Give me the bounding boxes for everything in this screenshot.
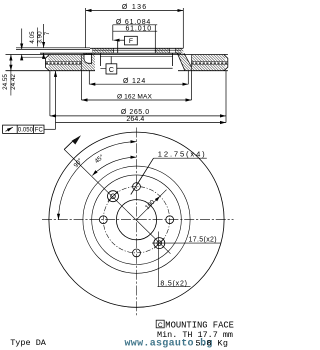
dim Ø265 extension right [225, 71, 227, 123]
hat circle Ø136 [92, 175, 182, 265]
dim Ø61 extension right [154, 25, 156, 48]
pin hole lower-right outer Ø17.5 [154, 238, 165, 249]
bolt hole left [99, 216, 107, 224]
datum F box [125, 36, 138, 45]
dim Ø136 extension left [85, 8, 87, 48]
flange inner step edge [113, 48, 115, 53]
svg-text:Type DA: Type DA [10, 338, 47, 348]
vent gap line upper [46, 61, 228, 63]
hat inner pocket left (white) [84, 54, 92, 63]
svg-text:0.050: 0.050 [18, 128, 34, 134]
svg-text:5.8 Kg: 5.8 Kg [196, 338, 229, 348]
svg-text:61.010: 61.010 [125, 25, 152, 32]
hat wall right outer diagonal edge [184, 53, 192, 67]
hat flange left (hatched) [92, 48, 114, 53]
dim 61.010 lower rule [113, 30, 157, 32]
runout FCF cell divider 1 [16, 125, 18, 133]
svg-text:Ø 265.0: Ø 265.0 [121, 109, 150, 116]
leader 8.5 shelf [158, 286, 191, 288]
hat wall inner edge right [172, 53, 174, 66]
friction ring right outer plate (hatched) [192, 55, 226, 62]
dim Ø124 extension right [187, 71, 189, 85]
dim Ø265 line [50, 115, 226, 117]
svg-text:264.4: 264.4 [126, 116, 144, 123]
svg-text:45°: 45° [93, 152, 106, 165]
dim Ø124 line [89, 83, 188, 85]
disc OD edge left with chamfers [45, 55, 49, 71]
svg-text:FC: FC [35, 128, 44, 134]
ring inner edge left [81, 55, 83, 71]
hat interior visible edge [100, 56, 172, 58]
horizontal centerline [42, 219, 234, 221]
dim Ø162 line [82, 99, 192, 101]
angle arc 90deg [59, 142, 137, 220]
dim Ø136 line [86, 10, 184, 12]
section direction elbow [64, 139, 74, 149]
dim Ø162 extension left [81, 71, 83, 100]
FRONT VIEW [42, 128, 234, 317]
datum C box [106, 64, 117, 74]
dim 264.4 line [56, 122, 227, 124]
DIMENSIONS (section view) [3, 8, 226, 133]
bolt circle radius line continuation [160, 190, 166, 196]
hat flange bottom line [40, 52, 181, 54]
svg-text:24.42: 24.42 [10, 74, 17, 90]
angle arc 45deg [92, 157, 136, 175]
friction ring left inner plate (hatched) [48, 65, 81, 71]
svg-text:8.5(x2): 8.5(x2) [160, 281, 187, 288]
dim Ø61.084 upper rule [113, 24, 157, 26]
flange pin hole edge left [169, 48, 171, 53]
svg-text:Ø 162 MAX: Ø 162 MAX [117, 94, 152, 101]
pin hole upper-left inner Ø8.5 [111, 194, 116, 199]
svg-text:24.55: 24.55 [2, 74, 9, 90]
svg-text:12.75(x4): 12.75(x4) [158, 150, 207, 159]
datum F leader arrow [114, 39, 125, 41]
bore edge right [154, 48, 156, 53]
hat flange right inner part (hatched) [155, 48, 169, 53]
svg-text:Ø 136: Ø 136 [122, 4, 148, 11]
hat interior bottom edge right segment [117, 67, 173, 69]
hat wall right diagonal band (hatched) [177, 53, 191, 70]
dim Ø265 extension left [49, 71, 51, 116]
dim 7 arrow line [43, 24, 45, 48]
svg-text:3.90: 3.90 [37, 31, 44, 44]
bolt hole top [133, 183, 141, 191]
hat flange right outer part (hatched) [176, 48, 184, 53]
dim Ø162 extension right [191, 71, 193, 100]
vent gap line lower [46, 64, 228, 66]
SECTION VIEW [6, 40, 228, 70]
leader 17.5 horizontal [152, 242, 221, 244]
leader 8.5 vertical [158, 232, 160, 287]
vertical centerline [136, 128, 138, 317]
hat wall left (hatched) [82, 53, 96, 70]
outer diameter circle [49, 132, 224, 307]
left extension line (4.05 lower ref) [22, 56, 46, 58]
pad sweep circle Ø162 [83, 166, 190, 273]
svg-text:C: C [109, 65, 114, 74]
svg-text:Ø 124: Ø 124 [123, 78, 146, 85]
dim 24.55 line with arrows [10, 55, 12, 71]
ring bottom face line right [178, 70, 228, 72]
runout FCF cell divider 2 [33, 125, 35, 133]
ring bottom face line left [6, 70, 96, 72]
ring inner edge right [191, 55, 193, 71]
friction ring left outer plate (hatched) [48, 55, 81, 62]
dim 4.05 arrow line [21, 29, 23, 50]
hat wall inner edge left [99, 53, 101, 66]
bolt circle radius line 45deg [137, 196, 161, 220]
friction ring right inner plate (hatched) [192, 65, 226, 71]
hat interior bottom edge left segment [100, 67, 106, 69]
ring top face line [6, 54, 228, 56]
leader 12.75 shelf [154, 157, 207, 159]
left extension line (4.05 ref) [16, 48, 90, 50]
svg-text:MOUNTING FACE: MOUNTING FACE [165, 320, 234, 330]
svg-text:17.5(x2): 17.5(x2) [189, 237, 217, 244]
svg-text:7: 7 [44, 31, 51, 35]
flange pin hole edge right [175, 48, 177, 53]
hat mounting face top line [90, 47, 183, 49]
dim 4.05 counter arrow [21, 54, 23, 59]
runout FCF frame [3, 125, 44, 133]
bolt hole right [166, 216, 174, 224]
disc OD edge right with chamfers [224, 55, 228, 71]
dim Ø124 extension left [88, 71, 90, 85]
svg-text:F: F [129, 38, 133, 45]
bolt hole bottom [133, 249, 141, 257]
datum C leader [110, 56, 112, 64]
svg-text:4.05: 4.05 [29, 31, 36, 44]
dim Ø61 extension left [112, 25, 114, 41]
svg-text:C: C [158, 322, 163, 329]
hat flange chamfer line [92, 49, 181, 51]
dim 7 counter arrow [43, 53, 45, 59]
left extension line (mounting face) [16, 47, 90, 49]
pin hole lower-right inner Ø8.5 [157, 241, 162, 246]
bore edge left [117, 40, 119, 53]
dim Ø136 extension right [182, 8, 184, 48]
runout FCF leader horizontal [44, 128, 56, 130]
svg-text:100: 100 [144, 198, 157, 211]
runout symbol arrow [6, 127, 13, 131]
section direction arrowhead [72, 135, 81, 144]
bolt circle Ø100 (dash-dot) [103, 187, 169, 253]
pin hole upper-left outer Ø17.5 [108, 191, 119, 202]
centre bore circle Ø61 [116, 200, 156, 240]
dim 24.55 line extension below [10, 71, 12, 96]
hat wall right inner diagonal edge [177, 53, 185, 70]
pin hole upper-left cross tick [108, 191, 118, 201]
pin hole lower-right cross tick [154, 238, 164, 248]
leader 12.75 diagonal through top hole [131, 158, 154, 194]
vent gap vane dashes [46, 62, 228, 64]
runout FCF leader vertical with arrow [55, 71, 57, 129]
limit line between 4.05 and 3.90 [37, 28, 39, 47]
diagonal 135 degree radial through pin holes [64, 149, 170, 253]
mounting face C box [156, 320, 164, 328]
